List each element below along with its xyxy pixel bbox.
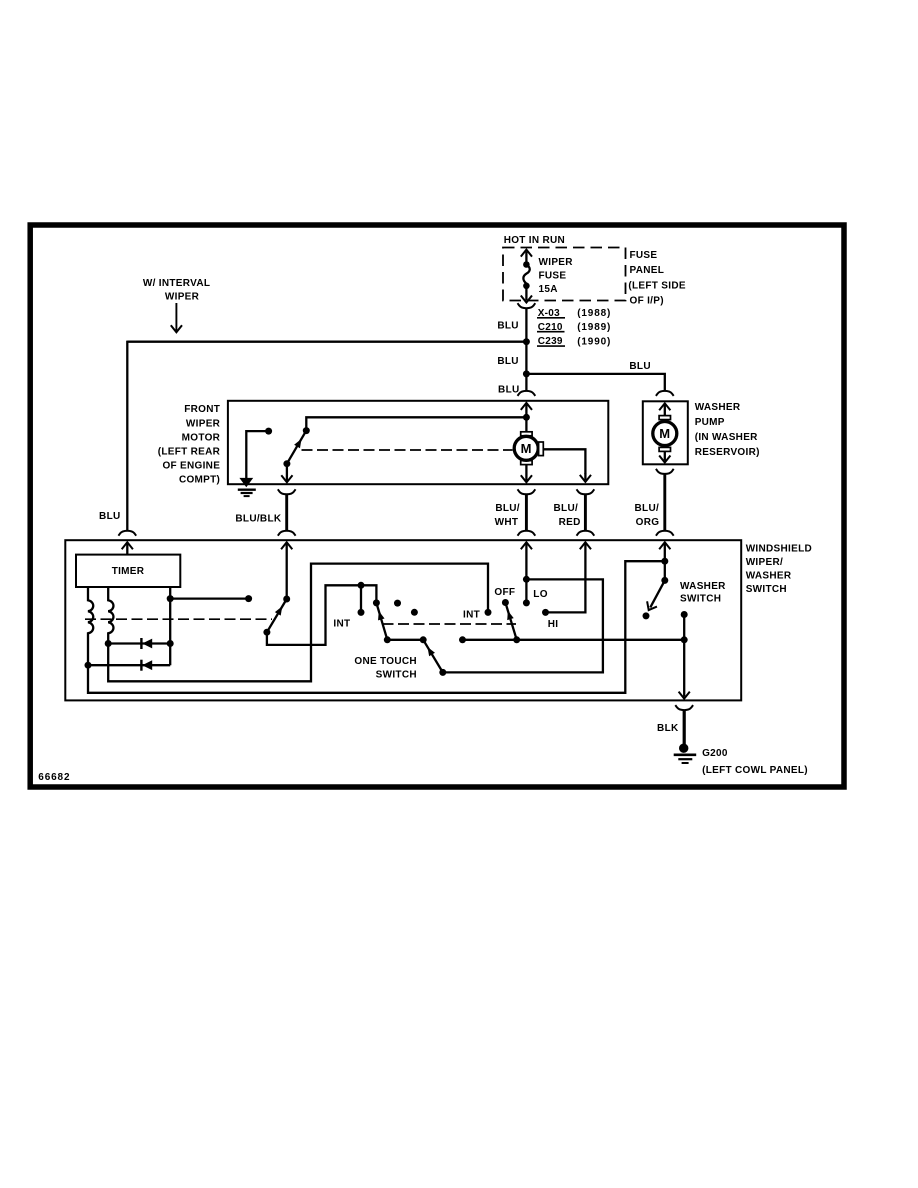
timer coil L1 [88, 587, 93, 665]
washer switch [643, 577, 669, 620]
wiper park switch [283, 427, 309, 467]
connector below motor BLU/BLK [278, 489, 296, 494]
washer pump label [695, 402, 760, 458]
contact washer to ground [681, 611, 688, 640]
wire BLU/BLK [285, 494, 288, 530]
wire to relay contact [170, 597, 248, 599]
svg-text:M: M [521, 441, 532, 456]
wire junction to park switch [306, 417, 526, 430]
svg-text:WIPER: WIPER [165, 292, 200, 303]
svg-text:BLU/: BLU/ [554, 503, 579, 514]
svg-text:FUSE: FUSE [630, 250, 658, 261]
wire to ground exit [679, 640, 690, 699]
svg-text:BLU: BLU [498, 384, 519, 395]
svg-text:WIPER/: WIPER/ [746, 557, 783, 568]
wire label BLU/ORG [635, 503, 660, 528]
svg-text:COMPT): COMPT) [179, 475, 220, 486]
svg-text:ONE TOUCH: ONE TOUCH [354, 656, 417, 667]
wire label BLU/WHT [495, 503, 520, 528]
svg-text:BLU: BLU [497, 356, 518, 367]
wire BLU/ORG [663, 474, 666, 531]
arrow entry BLU/WHT [521, 542, 532, 603]
arrow entry BLU to timer [122, 542, 133, 554]
junction timer output [167, 595, 174, 602]
mechanical link timer relay [85, 618, 272, 620]
wire rail to INT contact [108, 564, 488, 682]
svg-text:OFF: OFF [494, 587, 515, 598]
arrow entry BLU/RED [546, 542, 592, 612]
svg-text:BLK: BLK [657, 723, 679, 734]
contact spare A [394, 600, 401, 607]
arrow to interval wiper wire [171, 303, 182, 332]
arrow entry BLU/BLK [281, 542, 292, 599]
svg-text:BLU: BLU [99, 511, 120, 522]
svg-text:ORG: ORG [636, 517, 660, 528]
svg-text:TIMER: TIMER [112, 566, 145, 577]
wire BLU to washer pump [526, 374, 664, 391]
fuse value label WIPER FUSE 15A [539, 257, 574, 295]
wire stub to INT contact [360, 585, 362, 612]
motor M1 front wiper [514, 432, 543, 465]
svg-text:WHT: WHT [495, 517, 519, 528]
svg-text:INT: INT [463, 610, 480, 621]
one touch switch arm 1 [376, 603, 391, 643]
wire diode rail 1 [108, 642, 170, 644]
wire BLU/WHT [525, 494, 528, 530]
connector BLU/RED at switch [577, 531, 595, 536]
contact INT interval [358, 609, 365, 616]
contact LO [523, 599, 530, 606]
wire BLU to interval wiper branch [127, 341, 526, 343]
wire label BLU/RED [554, 503, 581, 528]
connector left BLU at switch [118, 531, 136, 536]
svg-text:66682: 66682 [38, 772, 70, 783]
junction washer feed [661, 558, 668, 565]
motor M2 washer pump [653, 416, 677, 452]
mechanical link park switch to motor [302, 449, 513, 451]
svg-text:M: M [659, 426, 670, 441]
svg-text:(IN WASHER: (IN WASHER [695, 432, 758, 443]
svg-text:WASHER: WASHER [695, 402, 741, 413]
junction coil L1 / rail [85, 662, 92, 669]
svg-text:HOT IN RUN: HOT IN RUN [504, 235, 565, 246]
wire one touch to LO [443, 579, 603, 672]
windshield wiper/washer switch label [746, 544, 812, 595]
svg-text:(LEFT SIDE: (LEFT SIDE [628, 280, 685, 291]
svg-text:INT: INT [333, 618, 350, 629]
label W/ INTERVAL WIPER [143, 278, 210, 303]
front wiper motor box [228, 401, 608, 484]
wire diode rail 2 [88, 664, 170, 666]
wire mode switch to INT contacts [267, 585, 377, 645]
wire motor M1 brush to BLU/RED [543, 449, 591, 482]
wire switch common rail [459, 636, 684, 643]
svg-text:OF ENGINE: OF ENGINE [162, 461, 220, 472]
contact OFF [502, 599, 509, 606]
arrow into motor box [521, 403, 532, 417]
one touch switch arm 2 [420, 636, 447, 676]
svg-text:SWITCH: SWITCH [376, 670, 417, 681]
connector C239 (1990) [537, 336, 611, 347]
junction coil L2 / diode rail [105, 640, 112, 647]
svg-text:PUMP: PUMP [695, 417, 725, 428]
fuse panel label [628, 250, 685, 306]
svg-text:RED: RED [559, 517, 581, 528]
svg-text:BLU: BLU [629, 361, 650, 372]
wire BLU/RED [584, 494, 587, 530]
svg-text:W/ INTERVAL: W/ INTERVAL [143, 278, 210, 289]
ground G200 [674, 744, 697, 764]
svg-text:WINDSHIELD: WINDSHIELD [746, 544, 812, 555]
junction on LO wire [523, 576, 530, 583]
svg-text:BLU/: BLU/ [635, 503, 660, 514]
junction at C239 [523, 338, 530, 345]
contact relay (timer) [245, 595, 252, 602]
svg-text:WIPER: WIPER [186, 418, 221, 429]
wire M2 to box bottom [659, 451, 670, 462]
connector below washer pump [656, 469, 674, 474]
fuse F1 [521, 250, 532, 303]
ground (motor case) [238, 478, 256, 496]
junction to washer pump branch [523, 370, 530, 377]
svg-text:FUSE: FUSE [539, 271, 567, 282]
label WASHER SWITCH [680, 581, 726, 604]
svg-text:(1990): (1990) [577, 336, 611, 347]
svg-text:(LEFT COWL PANEL): (LEFT COWL PANEL) [702, 765, 808, 776]
wire BLU fuse to motor [525, 308, 527, 391]
wire one touch link [387, 639, 423, 641]
contact spare B [411, 609, 418, 616]
svg-text:BLU: BLU [497, 320, 518, 331]
wire junction to motor M1 [525, 417, 527, 432]
junction diode rail 1 [167, 640, 174, 647]
park switch ground branch [246, 428, 272, 480]
arrow into washer pump [659, 403, 670, 416]
diode D2 [141, 660, 152, 671]
connector below motor BLU/WHT [518, 489, 536, 494]
ground label G200 (LEFT COWL PANEL) [702, 748, 808, 776]
svg-text:WASHER: WASHER [680, 581, 726, 592]
connector C210 (1989) [537, 322, 611, 333]
svg-text:PANEL: PANEL [630, 265, 665, 276]
wire BLU left branch down [126, 341, 128, 530]
front wiper motor label [158, 404, 221, 486]
svg-text:BLU/BLK: BLU/BLK [235, 514, 281, 525]
connector at motor box top [518, 391, 536, 396]
main wiper switch arm [505, 603, 521, 644]
svg-text:OF I/P): OF I/P) [630, 295, 664, 306]
svg-text:(1989): (1989) [577, 322, 611, 333]
junction park switch feed [523, 414, 530, 421]
washer pump box [643, 401, 688, 464]
arrow entry BLU/ORG [659, 542, 670, 580]
svg-text:BLU/: BLU/ [495, 503, 520, 514]
windshield wiper/washer switch box [65, 540, 741, 700]
svg-text:WIPER: WIPER [539, 257, 574, 268]
diode D1 [141, 638, 152, 649]
connector BLU/BLK at switch [278, 531, 296, 536]
svg-text:(LEFT REAR: (LEFT REAR [158, 447, 221, 458]
junction ground rail [681, 636, 688, 643]
wire park switch to BLU/BLK [281, 464, 292, 483]
wire BLK [683, 710, 686, 744]
connector below fuse panel [518, 303, 536, 308]
timer coil L2 [108, 587, 113, 644]
contact HI [542, 609, 549, 616]
svg-text:HI: HI [548, 619, 559, 630]
wiper mode switch [263, 596, 290, 636]
svg-text:15A: 15A [539, 284, 558, 295]
contact INT main [485, 609, 492, 616]
svg-text:(1988): (1988) [577, 308, 611, 319]
connector X-03 (1988) [537, 308, 611, 319]
timer box [76, 555, 180, 587]
connector at washer pump top [656, 391, 674, 396]
label ONE TOUCH SWITCH [354, 656, 417, 681]
contact one touch top [373, 599, 380, 606]
svg-text:FRONT: FRONT [184, 404, 220, 415]
mechanical link main switch [383, 623, 517, 625]
wire motor M1 to BLU/WHT [521, 465, 532, 483]
svg-text:SWITCH: SWITCH [680, 593, 721, 604]
svg-text:LO: LO [533, 589, 548, 600]
wire timer output [169, 587, 171, 665]
svg-text:WASHER: WASHER [746, 571, 792, 582]
svg-text:MOTOR: MOTOR [182, 432, 221, 443]
connector BLU/ORG at switch [656, 531, 674, 536]
svg-text:RESERVOIR): RESERVOIR) [695, 447, 760, 458]
fuse panel box (dashed) [503, 248, 626, 301]
wire rail to washer switch [88, 561, 665, 693]
connector below motor BLU/RED [577, 489, 595, 494]
connector BLU/WHT at switch [518, 531, 536, 536]
junction INT stub [358, 582, 365, 589]
svg-text:G200: G200 [702, 748, 728, 759]
svg-text:SWITCH: SWITCH [746, 584, 787, 595]
connector BLK below switch [675, 705, 693, 710]
